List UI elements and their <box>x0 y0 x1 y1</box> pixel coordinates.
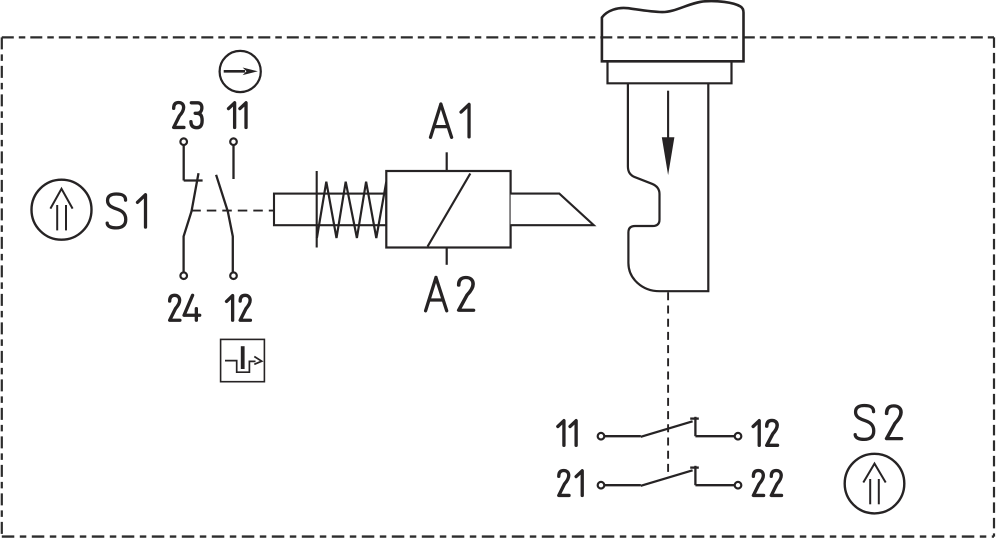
terminal 24 <box>180 272 187 279</box>
S1 up-arrow inside circle <box>50 189 72 231</box>
label 21 <box>559 471 582 496</box>
label 22 <box>753 471 781 496</box>
contact 11-12 (NO) <box>216 145 233 272</box>
label 24 <box>170 295 200 320</box>
spring abutment bar <box>316 171 318 248</box>
label 12 (S2) <box>753 420 777 445</box>
solenoid coil box <box>386 171 510 248</box>
label 23 <box>174 103 202 128</box>
mechanical link dashed line (actuator to S2 contacts) <box>667 292 669 476</box>
terminal 12 (S2) <box>735 433 742 440</box>
S2 up-arrow inside circle <box>863 464 885 505</box>
S1 actuator-direction symbol circle <box>32 180 92 240</box>
label 11 (S2) <box>558 421 576 446</box>
S2 contact 21-22 <box>604 466 734 486</box>
actuating-direction circle icon <box>220 51 261 92</box>
label 12 <box>227 295 251 320</box>
label S1 <box>107 194 145 228</box>
contact 23-24 (NC with positive opening) <box>184 145 203 272</box>
solenoid-latch icon symbol <box>225 346 262 372</box>
terminal 12 <box>230 272 237 279</box>
terminal 22 <box>735 482 742 489</box>
plunger rod <box>274 194 386 226</box>
actuator body with cam profile <box>628 83 708 291</box>
lead A2 <box>446 248 448 265</box>
right arrow inside icon <box>224 68 258 76</box>
terminal 23 <box>180 138 187 145</box>
solenoid-latch icon box <box>221 339 265 381</box>
label 11 <box>229 103 246 128</box>
label S2 <box>855 405 901 439</box>
label A2 <box>426 277 474 310</box>
S2 actuator-direction symbol circle <box>845 454 905 514</box>
label A1 <box>430 104 469 137</box>
terminal 21 <box>598 482 605 489</box>
mechanical link dashed line (contacts to plunger) <box>191 210 273 212</box>
lead A1 <box>446 152 448 171</box>
spring <box>317 182 386 238</box>
coil diagonal <box>428 174 471 247</box>
actuator head (door side, wavy break line) <box>602 1 744 61</box>
actuator flange <box>608 61 732 83</box>
insertion arrow head <box>662 137 675 175</box>
S2 contact 11-12 <box>604 417 734 437</box>
insertion arrow shaft <box>667 91 669 138</box>
locking bolt <box>511 194 594 226</box>
terminal 11 (S2) <box>598 433 605 440</box>
terminal 11 <box>230 138 237 145</box>
